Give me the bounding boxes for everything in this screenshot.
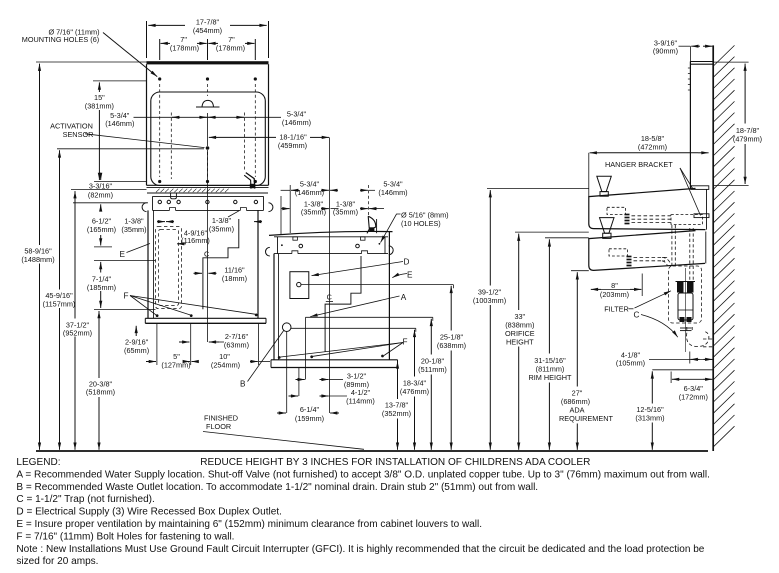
right cabinet inner wall	[278, 254, 280, 360]
svg-text:(511mm): (511mm)	[418, 365, 447, 374]
side panel front edge	[689, 62, 691, 190]
ext line sensor height	[57, 148, 204, 150]
dim 12-5/16	[651, 371, 653, 403]
svg-text:(63mm): (63mm)	[224, 341, 249, 350]
filter pipe centerline	[685, 268, 687, 352]
ref line A supply height	[306, 316, 433, 318]
basin clip	[171, 193, 177, 198]
svg-text:(459mm): (459mm)	[278, 141, 307, 150]
svg-text:10": 10"	[219, 352, 230, 361]
svg-text:FLOOR: FLOOR	[206, 422, 231, 431]
svg-text:(65mm): (65mm)	[124, 346, 149, 355]
wall line	[712, 45, 714, 451]
leader finished floor	[203, 432, 364, 450]
svg-text:(313mm): (313mm)	[635, 414, 664, 423]
activation sensor dot	[206, 146, 210, 150]
dim 58-9/16	[39, 64, 41, 245]
svg-text:A: A	[401, 293, 407, 302]
svg-text:(18mm): (18mm)	[222, 274, 247, 283]
hanger bracket pieces	[691, 186, 709, 190]
leader FILTER	[635, 291, 672, 308]
svg-text:(203mm): (203mm)	[600, 290, 629, 299]
dim 27 ADA	[576, 272, 578, 386]
filter cartridge	[678, 293, 693, 320]
ref line lower unit underside ext	[571, 270, 589, 272]
ref line end elbows	[452, 285, 454, 289]
left unit centerline	[207, 150, 209, 342]
dims above right cooler: verticals	[289, 185, 291, 233]
dim 6-1/2	[100, 204, 102, 210]
right cooler basin top	[269, 231, 393, 235]
leader mounting holes	[103, 33, 157, 77]
right cooler right ear	[389, 246, 393, 255]
underline of C-line right	[326, 301, 333, 303]
svg-text:HEIGHT: HEIGHT	[506, 337, 534, 346]
svg-text:(146mm): (146mm)	[295, 188, 324, 197]
push-button dome on panel	[196, 106, 220, 108]
dim 13-7/8	[397, 361, 399, 399]
right apron holes	[299, 244, 303, 248]
basin water hatch	[156, 189, 229, 193]
leader C trap	[641, 315, 678, 338]
hanger bracket leaders	[680, 168, 693, 189]
bolt holes F right	[278, 356, 281, 359]
svg-text:C: C	[204, 249, 209, 258]
svg-text:(352mm): (352mm)	[382, 409, 411, 418]
svg-text:F = 7/16" (11mm) Bolt Holes fo: F = 7/16" (11mm) Bolt Holes for fastenin…	[16, 531, 234, 542]
dim 18-7/8 ext top	[714, 61, 749, 63]
dim 5 and 10 inch line	[146, 361, 156, 363]
dim 3-3/16	[100, 174, 102, 181]
ext line louver bottom	[94, 309, 156, 311]
dim 3-1/2	[296, 379, 305, 381]
upper wall bracket (dashed)	[671, 215, 703, 225]
ext line basin rim left	[71, 189, 147, 191]
dim 17-7/8 ext lines	[146, 21, 148, 58]
in-wall mounting panel top band	[147, 61, 269, 185]
ext vertical 4-1/2	[298, 368, 300, 397]
filter head fittings	[677, 282, 684, 293]
svg-text:(10 HOLES): (10 HOLES)	[401, 219, 441, 228]
upper unit regulator (dashed)	[607, 207, 626, 214]
filter housing (dashed)	[669, 266, 702, 323]
sensor centerline	[207, 113, 209, 146]
dim 1-3/8 arrows near apron (left unit)	[157, 221, 165, 223]
dim 39-1/2	[489, 190, 491, 285]
right apron bottom	[274, 253, 292, 255]
dim 45-9/16	[59, 150, 61, 289]
dim 15 inch	[93, 80, 147, 82]
dim 5-3/4 pair line	[134, 116, 282, 118]
svg-text:(114mm): (114mm)	[346, 397, 375, 406]
svg-text:(472mm): (472mm)	[638, 143, 667, 152]
svg-text:E: E	[120, 250, 126, 259]
svg-text:B = Recommended Waste Outlet l: B = Recommended Waste Outlet location. T…	[16, 482, 538, 493]
svg-text:5": 5"	[173, 352, 180, 361]
svg-text:(127mm): (127mm)	[161, 361, 190, 370]
louver panel (dashed)	[156, 227, 182, 309]
waste circle B	[282, 323, 291, 332]
svg-text:Note : New Installations Must: Note : New Installations Must Use Ground…	[16, 544, 704, 555]
dim 11/16	[194, 272, 203, 274]
lower cooler profile	[589, 231, 705, 271]
svg-text:(105mm): (105mm)	[616, 359, 645, 368]
leader A	[310, 296, 399, 317]
dim 1-3/8 pair right cooler	[282, 208, 290, 210]
ref line lower rim to side view	[545, 237, 589, 239]
svg-text:RIM HEIGHT: RIM HEIGHT	[529, 373, 573, 382]
ref line upper basin rim to side view	[487, 188, 589, 190]
svg-text:(381mm): (381mm)	[85, 101, 114, 110]
apron mounting holes	[158, 200, 161, 203]
svg-text:(178mm): (178mm)	[170, 43, 199, 52]
dim 7-1/4	[100, 262, 102, 273]
finished floor line	[36, 450, 708, 452]
svg-text:(952mm): (952mm)	[63, 329, 92, 338]
recessed rounded access panel	[151, 92, 265, 186]
svg-text:(90mm): (90mm)	[653, 47, 678, 56]
upper unit comb block	[625, 215, 630, 224]
right unit centerline	[328, 137, 330, 413]
supply stub vertical	[305, 317, 307, 379]
svg-text:C: C	[327, 293, 332, 302]
upper bubbler	[597, 176, 612, 191]
riser pipes (dashed)	[672, 225, 693, 281]
svg-text:(638mm): (638mm)	[437, 341, 466, 350]
dim 4-1/8	[649, 358, 713, 360]
dim 20-3/8	[98, 311, 100, 378]
svg-text:(146mm): (146mm)	[105, 119, 134, 128]
lower unit comb block	[627, 257, 632, 266]
dim 6-1/4	[277, 412, 286, 414]
svg-text:(1003mm): (1003mm)	[473, 296, 506, 305]
svg-text:(165mm): (165mm)	[87, 225, 116, 234]
svg-text:(185mm): (185mm)	[87, 283, 116, 292]
svg-text:(146mm): (146mm)	[282, 118, 311, 127]
ref line D outlet height	[301, 284, 453, 286]
right cabinet bottom band	[271, 359, 398, 361]
svg-text:FILTER: FILTER	[604, 305, 629, 314]
dim 18-7/8 ext bottom	[714, 185, 749, 187]
E leader left	[127, 244, 151, 253]
svg-text:C: C	[634, 311, 640, 320]
mounting holes (6)	[158, 77, 257, 183]
svg-text:D: D	[404, 257, 410, 266]
lower unit dashed water lines	[634, 257, 671, 266]
right apron inner sides	[277, 237, 279, 254]
lower bubbler	[600, 218, 615, 234]
svg-text:(479mm): (479mm)	[733, 135, 762, 144]
dim 18-3/4	[414, 330, 416, 377]
svg-text:(35mm): (35mm)	[301, 208, 326, 217]
svg-text:E: E	[407, 271, 413, 280]
ref line lower orifice to side view	[515, 231, 589, 233]
svg-text:(1157mm): (1157mm)	[43, 300, 76, 309]
upper unit dashed water lines	[632, 216, 672, 223]
ext line cabinet top	[73, 202, 148, 204]
waste stepped line right	[325, 256, 361, 352]
svg-text:A = Recommended Water Supply l: A = Recommended Water Supply location. S…	[16, 469, 710, 480]
svg-text:D = Electrical Supply (3) Wire: D = Electrical Supply (3) Wire Recessed …	[16, 507, 282, 518]
ext line bottom holes row	[94, 181, 147, 183]
dim 8 inch ext	[641, 274, 643, 297]
dim 18-1/16	[209, 136, 218, 138]
right basin inner top	[274, 236, 388, 238]
dim 7 inch arrows	[161, 42, 171, 44]
dim 7 inch left / right verticals	[159, 39, 161, 60]
wall hatch	[713, 45, 734, 446]
left dim column: 58-9/16 ext	[36, 61, 147, 63]
under left cabinet ext verticals	[156, 323, 158, 365]
dim 6-3/4	[670, 372, 672, 384]
svg-text:E = Insure proper ventilation: E = Insure proper ventilation by maintai…	[16, 519, 482, 530]
B leader	[248, 331, 284, 382]
svg-text:(35mm): (35mm)	[121, 225, 146, 234]
left side ear	[142, 203, 146, 212]
svg-text:(172mm): (172mm)	[679, 393, 708, 402]
lower unit regulator (dashed)	[609, 249, 628, 256]
svg-text:(454mm): (454mm)	[193, 26, 222, 35]
waste stepped line left	[203, 219, 239, 309]
svg-text:(82mm): (82mm)	[88, 190, 113, 199]
trap (dashed)	[687, 327, 714, 347]
leader 1-3/8 second	[228, 211, 239, 217]
svg-text:8": 8"	[611, 281, 618, 290]
dim 31-15/16	[548, 239, 550, 353]
dim 3-9/16	[689, 46, 691, 61]
left cabinet inner wall	[153, 210, 155, 318]
svg-text:(476mm): (476mm)	[400, 387, 429, 396]
dim 17-7/8	[148, 24, 185, 26]
dim 8 inch	[591, 288, 601, 290]
dim 37-1/2	[74, 191, 76, 318]
svg-text:sized for 20 amps.: sized for 20 amps.	[16, 556, 98, 567]
svg-text:(178mm): (178mm)	[216, 43, 245, 52]
svg-text:B: B	[240, 380, 246, 389]
dim 5-3/4 pair right cooler	[281, 189, 291, 191]
left cooler cabinet body	[147, 210, 149, 318]
left basin bubbler guard	[246, 173, 255, 189]
right bubbler guard	[367, 216, 369, 233]
svg-text:(1488mm): (1488mm)	[21, 255, 54, 264]
svg-text:C = 1-1/2" Trap (not furnished: C = 1-1/2" Trap (not furnished).	[16, 494, 154, 505]
svg-text:HANGER BRACKET: HANGER BRACKET	[605, 160, 673, 169]
svg-text:REQUIREMENT: REQUIREMENT	[559, 414, 613, 423]
leader D	[312, 262, 404, 276]
right cabinet body	[273, 254, 275, 360]
svg-text:(254mm): (254mm)	[211, 361, 240, 370]
svg-text:6-1/4": 6-1/4"	[300, 405, 320, 414]
dim 4-9/16 arrows	[177, 243, 186, 245]
dim 5-3/4 pair columns (dashed)	[171, 113, 244, 180]
dim 4-1/2	[289, 395, 299, 397]
right cooler left ear	[265, 247, 269, 256]
ext line louver top	[94, 259, 156, 261]
leader O 5/16 holes	[381, 214, 401, 243]
dim 33 orifice	[518, 234, 520, 310]
side panel top band	[690, 61, 713, 63]
F leaders right	[281, 343, 404, 358]
svg-text:(35mm): (35mm)	[333, 208, 358, 217]
svg-text:(116mm): (116mm)	[181, 236, 210, 245]
svg-text:(518mm): (518mm)	[86, 388, 115, 397]
electrical box D	[290, 272, 309, 299]
svg-text:SENSOR: SENSOR	[63, 130, 94, 139]
dim 2-7/16	[179, 341, 189, 343]
left cooler basin top rim	[147, 184, 269, 186]
filter unions	[680, 327, 692, 329]
svg-text:F: F	[403, 337, 408, 346]
svg-text:(35mm): (35mm)	[209, 224, 234, 233]
leader activation sensor	[85, 134, 205, 148]
leader E right	[392, 274, 407, 278]
mounting hole columns (dashed)	[160, 84, 256, 177]
svg-text:F: F	[124, 292, 129, 301]
svg-text:LEGEND:: LEGEND:	[16, 457, 60, 468]
dim 18-5/8	[590, 152, 600, 154]
upper cooler profile	[589, 188, 706, 229]
svg-text:MOUNTING HOLES (6): MOUNTING HOLES (6)	[22, 35, 99, 44]
svg-text:REDUCE HEIGHT BY 3 INCHES FOR: REDUCE HEIGHT BY 3 INCHES FOR INSTALLATI…	[200, 457, 590, 468]
dim 18-5/8 ext vertical	[588, 153, 590, 197]
dim 2-9/16	[135, 326, 137, 336]
right side ear	[269, 203, 273, 212]
left cooler apron	[153, 195, 264, 197]
bolt holes F left	[156, 314, 159, 317]
svg-text:(146mm): (146mm)	[378, 188, 407, 197]
panel knockout ticks	[688, 68, 691, 90]
dim 18-7/8	[744, 64, 746, 124]
svg-text:(159mm): (159mm)	[295, 414, 324, 423]
F leader lines left	[130, 296, 156, 315]
ref line B waste height	[291, 327, 416, 329]
cabinet bottom band	[145, 317, 266, 319]
dim 20-1/8	[430, 319, 432, 355]
dim 25-1/8	[450, 286, 452, 331]
ref line trap outlet	[652, 369, 713, 371]
